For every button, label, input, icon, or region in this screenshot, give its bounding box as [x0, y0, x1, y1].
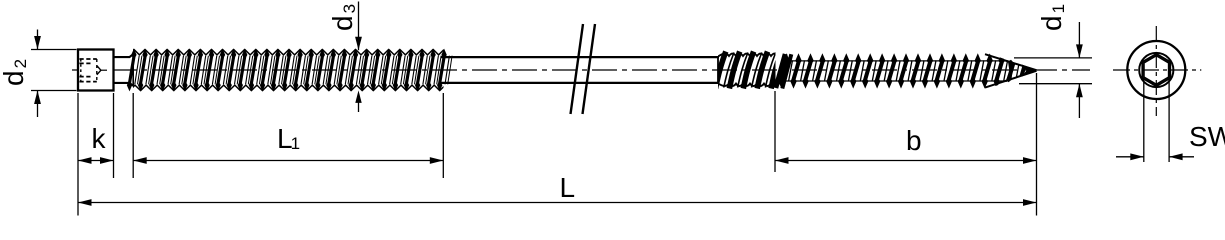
svg-text:d1: d1 — [1036, 4, 1068, 31]
serrated cutting flutes zone — [716, 52, 790, 89]
svg-text:L: L — [560, 172, 576, 203]
end view: socket chamfer circle — [1139, 53, 1173, 87]
centerline axis — [72, 69, 1090, 71]
dimension L1 (thread length under head) — [133, 93, 443, 178]
socket cone bottom — [97, 66, 101, 75]
taper thread chevrons — [1006, 60, 1014, 82]
svg-text:d3: d3 — [327, 4, 359, 31]
hex socket hidden lines — [80, 59, 97, 82]
end view: hex socket outer — [1142, 54, 1170, 86]
end view: head outer circle — [1127, 41, 1185, 99]
dimension SW (socket width across flats) — [1116, 79, 1225, 162]
dimension d2 (head diameter) — [0, 30, 77, 118]
dimension L (overall length) — [78, 73, 1037, 216]
tapered tip outline — [985, 54, 1037, 87]
end view: hex socket inner (chamfer) — [1144, 56, 1169, 85]
thread b section with tapered tip — [778, 53, 1043, 88]
plain shank — [441, 56, 719, 58]
svg-text:d2: d2 — [0, 59, 30, 86]
svg-text:b: b — [906, 125, 922, 156]
svg-text:SW: SW — [1189, 121, 1225, 152]
screw head (cylinder, side view) — [78, 50, 114, 91]
svg-text:k: k — [92, 123, 107, 154]
neck collar under head — [114, 54, 134, 86]
dimension d1 (thread b outer diameter) — [1014, 4, 1092, 118]
thread run-in bands — [776, 54, 785, 88]
dimension b (thread length at tip) — [775, 91, 1037, 172]
break (interruption) lines — [571, 24, 584, 114]
end view: crosshair centerlines — [1113, 69, 1201, 71]
thread L1 section — [124, 49, 452, 92]
svg-text:L1: L1 — [277, 123, 300, 154]
tip point — [1022, 65, 1036, 77]
dimension d3 (thread L1 outer diameter) — [327, 2, 362, 113]
dimension k (head height) — [78, 93, 114, 216]
